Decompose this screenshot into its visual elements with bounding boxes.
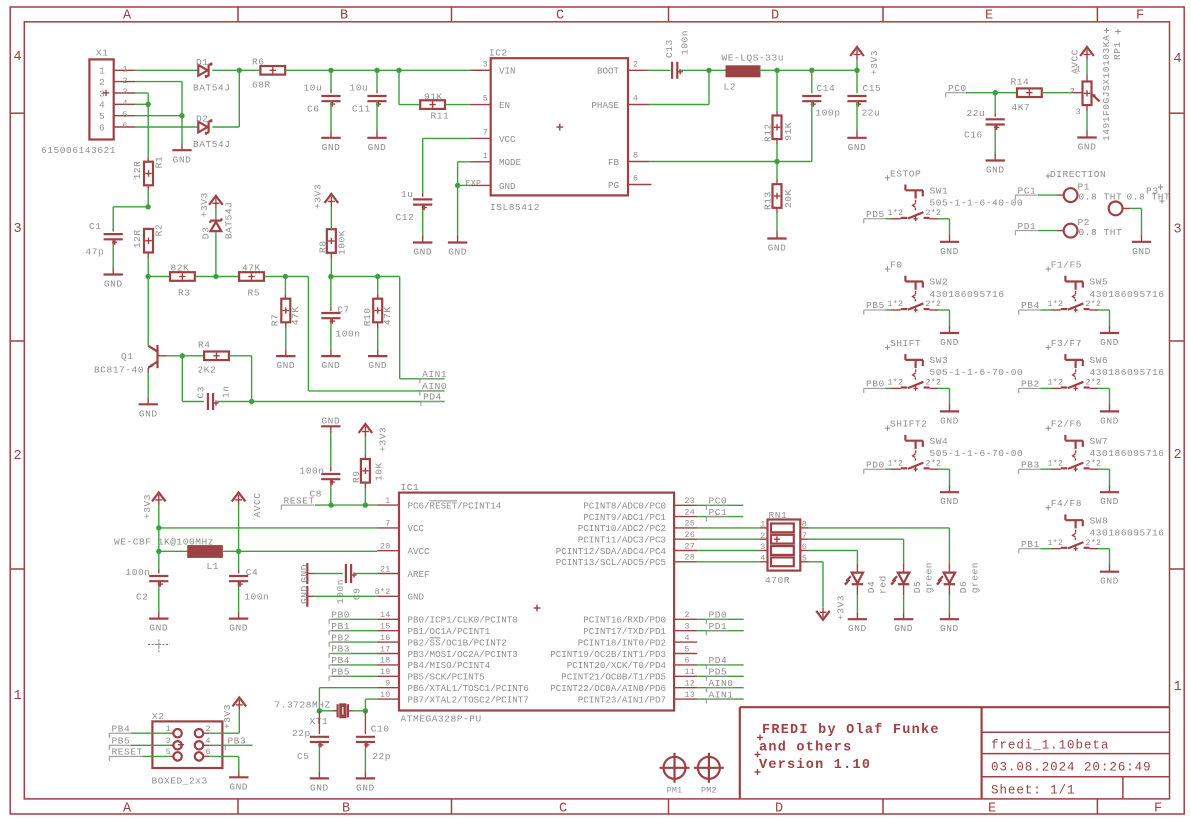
capacitor C1 47p <box>86 221 123 258</box>
svg-text:1*2: 1*2 <box>1048 378 1064 388</box>
svg-text:1*2: 1*2 <box>1048 538 1064 548</box>
svg-text:100p: 100p <box>816 108 841 119</box>
wire IC1 PC4 to RN1 <box>697 550 759 552</box>
ground R7 <box>276 322 295 371</box>
node C16 tap <box>993 90 998 95</box>
ground C15 <box>847 101 866 153</box>
node R1 C1 <box>145 204 150 209</box>
wire X1 pin5 <box>136 115 182 117</box>
ground SW7 <box>1100 485 1119 507</box>
svg-text:PB2/SS/OC1B/PCINT2: PB2/SS/OC1B/PCINT2 <box>408 637 507 648</box>
LED D6 green <box>937 562 981 593</box>
wire SW1 to ground <box>938 219 950 235</box>
svg-text:C4: C4 <box>246 567 259 578</box>
svg-text:ESTOP: ESTOP <box>890 168 921 179</box>
origin cross marker <box>148 640 170 654</box>
svg-text:DIRECTION: DIRECTION <box>1050 169 1106 180</box>
svg-text:PB5/SCK/PCINT5: PB5/SCK/PCINT5 <box>408 672 485 683</box>
label AIN0 IC1 <box>706 678 733 692</box>
svg-text:F0: F0 <box>890 260 903 271</box>
svg-text:+3V3: +3V3 <box>142 494 153 519</box>
svg-text:green: green <box>969 562 980 593</box>
wire PD1 to P2 <box>1038 230 1064 232</box>
svg-text:PCINT20/XCK/T0/PD4: PCINT20/XCK/T0/PD4 <box>567 660 667 671</box>
svg-text:100n: 100n <box>244 592 269 603</box>
svg-text:SW3: SW3 <box>930 355 949 366</box>
wire SW6 to ground <box>1098 388 1110 404</box>
IC1 left pin names <box>408 500 529 705</box>
microcontroller IC1 ATMEGA328P-PU box <box>399 482 674 724</box>
svg-text:E: E <box>985 9 993 24</box>
connector X1 <box>41 48 136 157</box>
svg-text:C15: C15 <box>863 83 882 94</box>
svg-text:C2: C2 <box>136 592 149 603</box>
svg-text:1*2: 1*2 <box>888 208 904 218</box>
IC1 left pin stubs <box>377 505 399 699</box>
frame row labels right <box>1173 52 1181 695</box>
switch SW4 SHIFT2 <box>885 419 1023 472</box>
svg-text:C8: C8 <box>310 489 323 500</box>
node R11 tap <box>396 68 401 73</box>
svg-text:red: red <box>877 575 888 594</box>
svg-text:18: 18 <box>380 657 391 666</box>
zener diode D3 BAT54J <box>200 202 234 240</box>
wire R12 to FB node <box>776 139 778 161</box>
svg-text:14: 14 <box>380 611 391 620</box>
IC2 pin stubs left <box>471 70 491 185</box>
svg-text:Q1: Q1 <box>121 351 134 362</box>
svg-text:PCINT10/ADC2/PC2: PCINT10/ADC2/PC2 <box>578 523 666 534</box>
svg-text:47p: 47p <box>86 247 105 258</box>
svg-text:22p: 22p <box>292 728 311 739</box>
capacitor C7 100n <box>321 277 360 340</box>
svg-text:D4: D4 <box>866 581 877 594</box>
resistor R3 82K <box>170 262 195 298</box>
svg-text:GND: GND <box>321 415 340 426</box>
node D3 tap <box>213 274 218 279</box>
wire PB2 to SW6 <box>1041 387 1052 389</box>
resistor R7 47K <box>269 277 301 327</box>
wire SW3 to ground <box>938 388 950 404</box>
label PD5 <box>864 209 886 223</box>
svg-text:SW2: SW2 <box>930 277 949 288</box>
wire IC2 FB <box>649 161 778 163</box>
svg-text:C11: C11 <box>352 104 371 115</box>
svg-text:PCINT12/SDA/ADC4/PC4: PCINT12/SDA/ADC4/PC4 <box>556 546 667 557</box>
svg-text:PCINT16/RXD/PD0: PCINT16/RXD/PD0 <box>583 615 666 626</box>
label PD5 IC1 <box>706 667 728 681</box>
svg-text:PB7/XTAL2/TOSC2/PCINT7: PB7/XTAL2/TOSC2/PCINT7 <box>408 694 529 705</box>
label PD0 IC1 <box>706 610 728 624</box>
wire SW4 to ground <box>938 469 950 485</box>
svg-text:17: 17 <box>380 645 391 654</box>
svg-text:GND: GND <box>940 337 959 348</box>
svg-text:D5: D5 <box>912 581 923 594</box>
svg-text:3: 3 <box>166 737 171 746</box>
ground C2 <box>149 581 168 633</box>
svg-text:F3/F7: F3/F7 <box>1051 338 1082 349</box>
svg-text:03.08.2024 20:26:49: 03.08.2024 20:26:49 <box>991 761 1152 775</box>
svg-text:SW4: SW4 <box>930 436 949 447</box>
svg-text:3: 3 <box>13 222 21 237</box>
ground C4 <box>229 581 248 633</box>
svg-text:4: 4 <box>685 634 690 643</box>
ground SW6 <box>1100 404 1119 426</box>
svg-text:X1: X1 <box>96 48 109 59</box>
svg-text:R3: R3 <box>178 287 191 298</box>
wire X2 pin6 to ground <box>203 756 239 770</box>
ground C7 <box>321 318 340 371</box>
node FB <box>774 159 779 164</box>
svg-text:1: 1 <box>13 689 21 704</box>
svg-text:GND: GND <box>1100 337 1119 348</box>
svg-text:+3V3: +3V3 <box>199 192 210 217</box>
supply +3V3 above R8 <box>312 184 338 229</box>
label AIN0 <box>420 381 447 395</box>
IC2 pin stubs right <box>628 70 652 184</box>
svg-text:28: 28 <box>685 554 696 563</box>
svg-text:2*2: 2*2 <box>926 208 942 218</box>
title block sheet <box>991 784 1076 798</box>
IC1 right pin stubs <box>674 505 697 699</box>
svg-text:C13: C13 <box>664 39 675 58</box>
svg-text:1: 1 <box>123 66 128 75</box>
resistor R12 91K <box>762 70 794 142</box>
svg-text:22p: 22p <box>372 751 391 762</box>
svg-text:3: 3 <box>1076 108 1081 117</box>
svg-text:2*2: 2*2 <box>1086 299 1102 309</box>
svg-text:D: D <box>771 9 779 24</box>
svg-text:SW8: SW8 <box>1090 515 1109 526</box>
wire PB4 to X2 pin1 <box>131 732 173 734</box>
wire X1 pin4 <box>136 103 149 105</box>
svg-text:6: 6 <box>206 748 211 757</box>
node XT1 left <box>317 708 322 713</box>
wire X2 pin4 PB3 <box>203 744 252 746</box>
wire C13 to node <box>679 69 709 71</box>
capacitor C8 100n <box>300 433 341 500</box>
node R12 tap top <box>774 68 779 73</box>
wire PB3 to SW7 <box>1041 468 1052 470</box>
svg-text:PCINT11/ADC3/PC3: PCINT11/ADC3/PC3 <box>578 535 666 546</box>
wire IC1 XTAL2 <box>365 699 377 711</box>
resistor R13 20K <box>762 162 794 211</box>
label PC0 <box>946 83 968 97</box>
svg-text:VCC: VCC <box>408 523 425 534</box>
svg-text:2: 2 <box>206 725 211 734</box>
wire X1 pin6 to D2 <box>136 126 199 128</box>
svg-text:5: 5 <box>99 111 105 122</box>
svg-text:2: 2 <box>760 532 765 541</box>
wire PD0 to SW4 <box>886 468 892 470</box>
svg-text:GND: GND <box>1100 496 1119 507</box>
wire PC1 to P1 <box>1038 194 1064 196</box>
wire IC1 PD1 <box>697 630 744 632</box>
wire PC0 to R14 <box>966 92 1017 94</box>
switch SW7 F2/F6 <box>1046 419 1165 472</box>
svg-text:505-1-1-6-70-00: 505-1-1-6-70-00 <box>930 367 1024 378</box>
wire main net horizontal <box>148 276 400 278</box>
wire L2 to +3V3 <box>759 69 857 71</box>
wire R2 to main node <box>147 253 149 277</box>
svg-text:4: 4 <box>13 50 21 65</box>
wire RN1 pin6 to D4 <box>809 551 858 573</box>
svg-text:5: 5 <box>802 555 807 564</box>
svg-text:GND: GND <box>368 360 387 371</box>
node C15 tap <box>854 68 859 73</box>
svg-text:R10: R10 <box>362 308 373 327</box>
svg-text:10u: 10u <box>350 83 369 94</box>
svg-text:1*2: 1*2 <box>888 458 904 468</box>
node R9 tap <box>363 502 368 507</box>
label PB5 X2 <box>109 736 131 750</box>
svg-text:BOOT: BOOT <box>597 66 620 77</box>
svg-text:C6: C6 <box>307 104 320 115</box>
resistor R11 91K <box>399 70 471 121</box>
label PD1 IC1 <box>706 621 728 635</box>
svg-text:PB3/MOSI/OC2A/PCINT3: PB3/MOSI/OC2A/PCINT3 <box>408 649 518 660</box>
wire P3 to ground <box>1123 208 1142 234</box>
label PB5 <box>329 667 377 681</box>
svg-text:1: 1 <box>166 725 171 734</box>
wire PB5 to X2 pin3 <box>131 744 173 746</box>
node after D1 <box>237 68 242 73</box>
svg-text:1: 1 <box>385 497 390 506</box>
svg-text:100K: 100K <box>337 230 348 255</box>
capacitor C14 100p <box>802 70 840 118</box>
svg-text:615006143621: 615006143621 <box>41 145 116 156</box>
svg-text:0.8 THT: 0.8 THT <box>1079 227 1123 238</box>
svg-text:10u: 10u <box>304 83 323 94</box>
svg-text:BAT54J: BAT54J <box>193 139 231 150</box>
label PB1 <box>1019 539 1041 553</box>
node EXP <box>455 183 460 188</box>
svg-text:GND: GND <box>986 165 1005 176</box>
svg-text:13: 13 <box>685 691 696 700</box>
supply +3V3 arrow down <box>816 595 846 620</box>
svg-text:6: 6 <box>123 122 128 131</box>
ground C11 <box>367 101 386 153</box>
connector X2 BOXED_2x3 <box>152 711 223 787</box>
svg-text:P1: P1 <box>1078 181 1091 192</box>
switch SW2 F0 <box>885 260 1005 313</box>
svg-text:PB1/OC1A/PCINT1: PB1/OC1A/PCINT1 <box>408 626 491 637</box>
svg-text:+3V3: +3V3 <box>836 595 847 620</box>
ground R10 <box>368 322 387 371</box>
svg-text:430186095716: 430186095716 <box>1090 289 1165 300</box>
svg-text:GND: GND <box>299 585 310 604</box>
node C3 PD4 <box>249 399 254 404</box>
svg-text:F: F <box>1154 802 1162 817</box>
svg-text:BC817-40: BC817-40 <box>94 365 144 376</box>
node AVCC rail <box>236 549 241 554</box>
IC1 right pin names <box>550 501 666 706</box>
svg-text:L2: L2 <box>724 82 737 93</box>
wire PB1 to SW8 <box>1041 548 1052 550</box>
svg-text:1: 1 <box>1173 680 1181 695</box>
svg-text:PCINT22/OC0A/AIN0/PD6: PCINT22/OC0A/AIN0/PD6 <box>550 683 666 694</box>
wire base node down to C3 <box>182 356 204 402</box>
ground C10 <box>356 742 375 793</box>
IC2 right pin names <box>591 66 619 191</box>
svg-text:B: B <box>342 802 350 817</box>
svg-text:GND: GND <box>448 247 467 258</box>
ground SW1 <box>940 235 959 257</box>
svg-text:WE-LQS-33u: WE-LQS-33u <box>722 52 785 63</box>
svg-text:R12: R12 <box>762 123 773 142</box>
resistor R5 47K <box>239 262 264 298</box>
svg-text:SHIFT2: SHIFT2 <box>890 419 928 430</box>
svg-text:12R: 12R <box>132 229 143 248</box>
resistor R1 12R <box>132 156 164 185</box>
svg-text:100n: 100n <box>335 579 346 604</box>
wire net AIN1 <box>400 277 445 379</box>
ground SW4 <box>940 485 959 507</box>
wire RN1 pin5 to +3V3 <box>809 562 824 607</box>
svg-text:47K: 47K <box>382 306 393 325</box>
svg-text:C: C <box>556 9 564 24</box>
wire IC1 AIN1 <box>697 698 744 700</box>
pad P1 0.8 THT <box>1064 181 1123 202</box>
ground GND pin rotated <box>299 585 314 607</box>
ground C6 <box>321 101 340 153</box>
svg-text:8: 8 <box>633 152 638 161</box>
svg-text:1*2: 1*2 <box>1048 458 1064 468</box>
capacitor C6 10u <box>304 70 341 114</box>
ground AREF rotated <box>299 563 314 584</box>
wire C1 to ground <box>112 239 114 267</box>
svg-text:PCINT18/INT0/PD2: PCINT18/INT0/PD2 <box>578 637 666 648</box>
svg-text:R7: R7 <box>269 314 280 327</box>
svg-text:GND: GND <box>408 592 425 603</box>
wire R14 to RP1 <box>1042 92 1083 94</box>
svg-text:L1: L1 <box>207 561 220 572</box>
svg-text:2*2: 2*2 <box>926 299 942 309</box>
svg-text:Sheet: 1/1: Sheet: 1/1 <box>991 784 1076 798</box>
svg-text:X2: X2 <box>152 711 165 722</box>
wire IC1 PC3 to RN1 <box>697 538 759 540</box>
svg-text:6: 6 <box>802 543 807 552</box>
supply +3V3 above D3 <box>199 192 223 219</box>
resistor R8 100K <box>317 229 347 276</box>
svg-text:FB: FB <box>608 157 620 168</box>
wire C9 to AREF <box>354 573 377 575</box>
label PB3 X2 <box>225 736 247 750</box>
supply +3V3 output <box>850 47 880 75</box>
ground above C8 <box>321 415 340 433</box>
svg-text:430186095716: 430186095716 <box>930 289 1005 300</box>
svg-text:MODE: MODE <box>499 157 522 168</box>
ground SW3 <box>940 404 959 426</box>
svg-text:505-1-1-6-40-00: 505-1-1-6-40-00 <box>930 198 1024 209</box>
switch SW6 F3/F7 <box>1046 338 1165 391</box>
svg-text:GND: GND <box>1078 142 1097 153</box>
svg-text:GND: GND <box>310 782 329 793</box>
svg-text:1: 1 <box>99 66 105 77</box>
wire X1 pin3 to pin4 node <box>136 93 149 104</box>
svg-text:SW6: SW6 <box>1090 355 1109 366</box>
resistor R14 4K7 <box>1011 77 1042 114</box>
crystal XT1 7.3728MHZ <box>275 700 366 727</box>
supply +3V3 left rail <box>142 492 166 528</box>
svg-text:3: 3 <box>123 88 128 97</box>
ground C5 <box>310 742 329 793</box>
diode D2 BAT54J <box>193 114 231 151</box>
frame column labels bottom <box>123 802 1162 817</box>
wire IC2 MODE to EXP <box>458 162 471 186</box>
inductor L2 WE-LQS-33u <box>709 52 784 92</box>
resistor R2 12R <box>132 224 164 253</box>
wire R6 to IC2 VIN <box>285 69 491 71</box>
svg-text:11: 11 <box>685 668 696 677</box>
svg-text:47K: 47K <box>290 306 301 325</box>
svg-text:2*2: 2*2 <box>1086 538 1102 548</box>
wire PB5 to SW2 <box>886 309 892 311</box>
svg-text:4: 4 <box>633 95 638 104</box>
wire PB0 to SW3 <box>886 387 892 389</box>
svg-text:22u: 22u <box>862 108 881 119</box>
svg-text:7: 7 <box>385 520 390 529</box>
capacitor C2 100n <box>126 551 169 602</box>
wire VCC rail <box>159 527 377 529</box>
svg-text:505-1-1-6-70-00: 505-1-1-6-70-00 <box>930 448 1024 459</box>
svg-text:IC2: IC2 <box>489 48 508 59</box>
svg-text:GND: GND <box>894 623 913 634</box>
svg-text:2*2: 2*2 <box>1086 458 1102 468</box>
wire D3 branch <box>215 232 217 276</box>
label PD4 IC1 <box>706 655 728 669</box>
svg-text:2K2: 2K2 <box>198 365 217 376</box>
svg-text:2*2: 2*2 <box>926 378 942 388</box>
label PB4 <box>329 655 377 669</box>
svg-text:6: 6 <box>99 122 105 133</box>
svg-text:4: 4 <box>99 100 105 111</box>
ground below X1 <box>172 144 191 166</box>
svg-text:GND: GND <box>139 408 158 419</box>
svg-text:4: 4 <box>206 737 211 746</box>
svg-text:ATMEGA328P-PU: ATMEGA328P-PU <box>401 713 482 724</box>
wire node to C1 <box>113 207 148 232</box>
svg-text:C9: C9 <box>352 587 363 600</box>
IC1 right pin numbers <box>685 497 696 700</box>
mounting hole PM2 <box>694 753 724 796</box>
wire pin4 node to R1 <box>147 104 149 161</box>
svg-text:2: 2 <box>123 77 128 86</box>
svg-text:3: 3 <box>1173 223 1181 238</box>
node X1 pin5 <box>179 113 184 118</box>
frame column labels top <box>123 9 1144 24</box>
svg-text:4: 4 <box>1173 52 1181 67</box>
ground EXP <box>448 185 467 257</box>
svg-text:WE-CBF 1K@100MHz: WE-CBF 1K@100MHz <box>114 536 214 547</box>
svg-text:R1: R1 <box>153 156 164 169</box>
wire C14 to FB <box>777 101 812 161</box>
svg-text:R11: R11 <box>431 110 450 121</box>
node main R2 <box>145 274 150 279</box>
svg-text:RN1: RN1 <box>769 510 788 521</box>
svg-text:430186095716: 430186095716 <box>1090 448 1165 459</box>
wire X2 pin2 to +3V3 <box>203 710 239 733</box>
supply AVCC above RP1 <box>1070 47 1094 81</box>
wire PB4 to SW5 <box>1041 309 1052 311</box>
svg-text:GND: GND <box>368 142 387 153</box>
svg-text:10: 10 <box>380 691 391 700</box>
svg-text:GND: GND <box>104 279 123 290</box>
title block drawing name <box>991 739 1109 753</box>
node C6 tap <box>328 68 333 73</box>
capacitor C16 22u <box>964 93 1005 141</box>
switch SW5 F1/F5 <box>1046 260 1165 313</box>
